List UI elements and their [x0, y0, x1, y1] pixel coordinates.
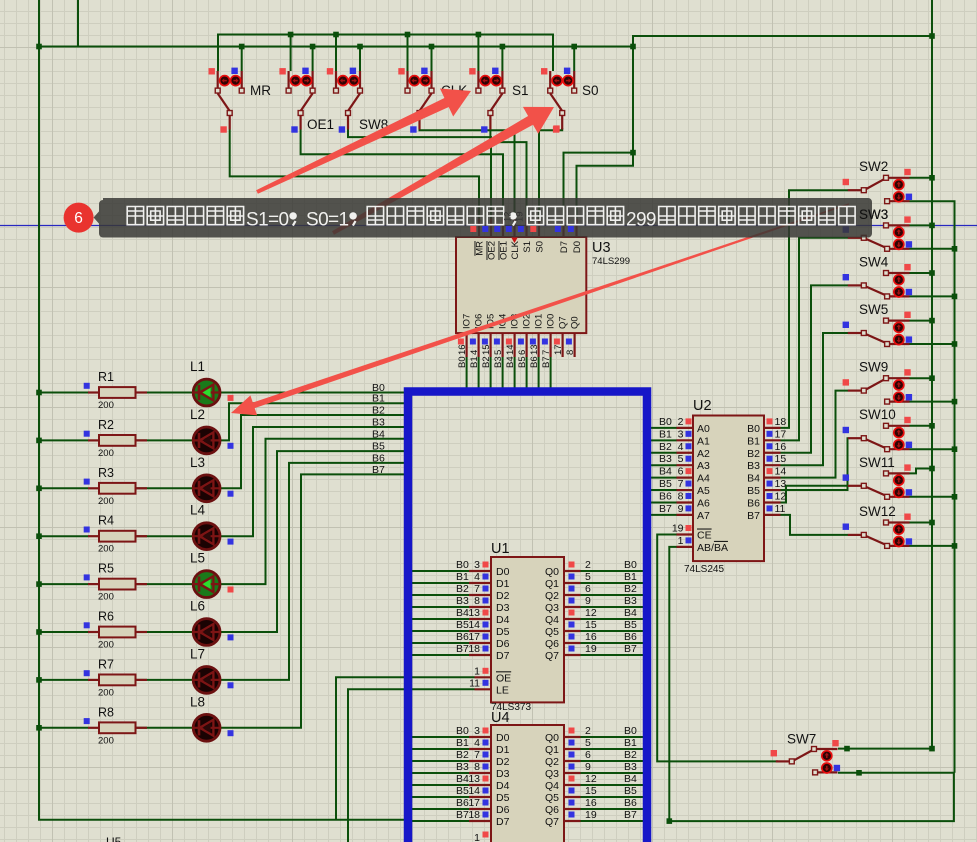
wire net B1 from L2 to module: [220, 403, 408, 440]
chip U3 74LS299: [456, 219, 630, 369]
svg-text:IO0: IO0: [545, 314, 556, 329]
wire R2 to L2: [135, 439, 193, 441]
wire U3 pin B5 to module: [526, 357, 528, 392]
svg-text:D0: D0: [496, 566, 510, 578]
svg-text:AB/BA: AB/BA: [697, 542, 728, 554]
svg-text:6: 6: [517, 350, 528, 355]
wire net B2 from L3 to module: [220, 415, 408, 488]
svg-text:B7: B7: [747, 510, 760, 522]
wire module to U2.A2: [651, 452, 677, 454]
svg-text:D0: D0: [572, 241, 583, 253]
svg-text:D4: D4: [496, 780, 510, 792]
switch SW5: [843, 302, 913, 346]
wire U1.Q1 to module: [581, 582, 646, 584]
svg-text:S0: S0: [535, 241, 546, 253]
svg-text:A6: A6: [697, 497, 710, 509]
svg-text:B2: B2: [659, 441, 672, 453]
wire switch top contact to rail y=225: [910, 224, 933, 226]
svg-text:S1: S1: [522, 241, 533, 253]
svg-text:15: 15: [585, 785, 597, 797]
U3 top pin numbers: [503, 211, 514, 222]
svg-text:15: 15: [481, 344, 492, 355]
wire U1.Q5 to module: [581, 630, 646, 632]
wire U3 pin B0 to module: [466, 357, 468, 392]
wire switch bottom contact to rail y=449: [910, 448, 955, 450]
svg-text:SW7: SW7: [787, 732, 816, 747]
svg-text:9: 9: [585, 595, 591, 607]
wire U4.Q2 to module: [581, 760, 646, 762]
switch CLK: [398, 68, 467, 133]
switch MR: [209, 68, 272, 133]
svg-text:299: 299: [626, 210, 656, 231]
svg-text:B7: B7: [624, 809, 637, 821]
svg-text:B4: B4: [372, 428, 385, 440]
svg-text:A1: A1: [697, 435, 710, 447]
wire net B4 from L5 to module: [220, 439, 408, 584]
svg-text:14: 14: [468, 785, 480, 797]
svg-text:D5: D5: [496, 626, 510, 638]
red annotation arrow to LEDs: [231, 203, 849, 415]
wire bus A stub x=290: [290, 35, 292, 72]
svg-text:B6: B6: [747, 497, 760, 509]
svg-text:18: 18: [468, 809, 480, 821]
svg-text:B6: B6: [624, 631, 637, 643]
wire switch top contact to rail y=273: [910, 272, 933, 274]
svg-text:SW12: SW12: [859, 504, 896, 519]
wire module to U2.A1: [651, 439, 677, 441]
svg-text:B2: B2: [456, 583, 469, 595]
svg-text:U1: U1: [491, 541, 510, 557]
svg-text:16: 16: [457, 344, 468, 355]
wire R6 to L6: [135, 631, 193, 633]
svg-text:6: 6: [585, 583, 591, 595]
wire module to U1.D1: [407, 582, 469, 584]
svg-text:6: 6: [585, 749, 591, 761]
wire U2.B6 to switch common: [781, 486, 849, 503]
svg-text:U3: U3: [592, 240, 611, 256]
wire module to U2.A5: [651, 489, 677, 491]
svg-text:D1: D1: [496, 578, 510, 590]
wire net B5 from L6 to module: [220, 451, 408, 632]
svg-text:D0: D0: [496, 732, 510, 744]
resistor R5: [84, 562, 147, 603]
svg-text:MR: MR: [475, 241, 486, 256]
wire R7 to L7: [135, 679, 193, 681]
svg-text:B7: B7: [624, 643, 637, 655]
svg-text:L2: L2: [190, 407, 205, 422]
wire rail to R7: [39, 679, 88, 681]
wire net B7 from L8 to module: [220, 474, 408, 727]
svg-text:L8: L8: [190, 694, 205, 709]
svg-text:B3: B3: [456, 761, 469, 773]
svg-text:8: 8: [474, 595, 480, 607]
svg-text:Q6: Q6: [545, 638, 559, 650]
svg-text:B5: B5: [372, 441, 385, 453]
svg-text:1: 1: [474, 832, 480, 842]
wire U4.Q6 to module: [581, 808, 646, 810]
svg-text:15: 15: [585, 619, 597, 631]
wire switch bottom contact to rail y=248: [910, 248, 955, 250]
svg-text:L7: L7: [190, 646, 205, 661]
svg-text:17: 17: [775, 428, 787, 440]
svg-text:B5: B5: [517, 356, 528, 368]
svg-text:B0: B0: [457, 356, 468, 368]
svg-text:200: 200: [98, 592, 114, 603]
svg-text:B3: B3: [624, 761, 637, 773]
U3 top pin state squares: [470, 125, 574, 232]
svg-text:Q7: Q7: [545, 650, 559, 662]
wire switch top contact to rail y=522: [910, 522, 933, 524]
red annotation arrow to S0: [332, 107, 554, 235]
wire module to U4.D5: [407, 796, 469, 798]
svg-text:B1: B1: [469, 356, 480, 368]
wire U4.Q3 to module: [581, 772, 646, 774]
svg-text:200: 200: [98, 496, 114, 507]
wire module to U2.A3: [651, 464, 677, 466]
svg-text:L6: L6: [190, 599, 205, 614]
wire D0 branch: [577, 153, 634, 219]
svg-text:B1: B1: [624, 571, 637, 583]
svg-text:B4: B4: [456, 607, 469, 619]
wire SW7 top contact to rail 1: [838, 748, 932, 750]
svg-text:6: 6: [678, 466, 684, 478]
wire module to U1.D2: [407, 594, 469, 596]
svg-text:R7: R7: [98, 657, 114, 671]
svg-text:D7: D7: [559, 241, 570, 253]
svg-text:L5: L5: [190, 551, 205, 566]
switch OE1: [279, 68, 334, 133]
svg-text:2: 2: [585, 559, 591, 571]
switch SW11: [843, 455, 913, 499]
subtitle tooltip box: [94, 198, 872, 238]
svg-text:13: 13: [468, 773, 480, 785]
switch SW12: [843, 504, 913, 548]
svg-text:B1: B1: [372, 393, 385, 405]
svg-text:17: 17: [468, 797, 480, 809]
wire U2.B1 to switch common: [781, 238, 849, 441]
LED L3: [190, 455, 234, 502]
svg-text:D3: D3: [496, 768, 510, 780]
svg-text:R4: R4: [98, 514, 114, 528]
svg-text:11: 11: [775, 503, 786, 515]
svg-text:12: 12: [503, 211, 514, 222]
wire net B0 from L1 to module: [220, 392, 408, 394]
LED L4: [190, 503, 234, 550]
wire SW8 switch to U3.OE2: [348, 130, 491, 220]
svg-text:CE: CE: [697, 530, 712, 542]
svg-text:B6: B6: [529, 356, 540, 368]
svg-text:B1: B1: [456, 571, 469, 583]
svg-text:B3: B3: [493, 356, 504, 368]
svg-text:SW4: SW4: [859, 254, 889, 269]
svg-text:19: 19: [515, 211, 526, 222]
wire U2.B3 to switch common: [781, 333, 849, 465]
wire U3 pin B6 to module: [538, 357, 540, 392]
LED L1: [190, 359, 234, 406]
svg-text:B3: B3: [659, 453, 672, 465]
svg-text:9: 9: [678, 503, 684, 515]
svg-text:200: 200: [98, 640, 114, 651]
svg-text:D7: D7: [496, 816, 510, 828]
svg-text:1: 1: [678, 535, 684, 547]
switch SW7: [771, 732, 841, 775]
svg-text:B1: B1: [624, 737, 637, 749]
svg-text:SW11: SW11: [859, 455, 895, 470]
chip U1 74LS373: [456, 557, 637, 702]
wire switch top contact to rail y=378: [910, 377, 933, 379]
svg-text:19: 19: [672, 523, 684, 535]
svg-text:B4: B4: [659, 466, 672, 478]
svg-text:5: 5: [585, 737, 591, 749]
LED L7: [190, 646, 234, 693]
svg-text:200: 200: [98, 544, 114, 555]
switch S1: [469, 68, 528, 133]
wire U2.B7 to switch common: [781, 515, 849, 535]
wire bus A stub x=478: [477, 35, 479, 72]
svg-text:S1=0: S1=0: [246, 210, 289, 231]
wire U1.LE: [348, 689, 475, 842]
svg-text:B1: B1: [747, 435, 760, 447]
svg-text:LE: LE: [496, 684, 509, 696]
svg-text:8: 8: [474, 761, 480, 773]
svg-text:U2: U2: [693, 398, 712, 414]
svg-text:SW5: SW5: [859, 302, 888, 317]
wire U1.OE: [336, 677, 475, 819]
chip U2 74LS245: [659, 398, 786, 575]
wire bus B stub x=312: [312, 47, 314, 72]
resistor R8: [84, 705, 147, 746]
chip U4 74LS373: [456, 725, 637, 842]
svg-text:B2: B2: [372, 405, 385, 417]
svg-text:U4: U4: [491, 710, 510, 726]
wire switch bottom contact to rail y=545: [910, 545, 955, 547]
svg-text:200: 200: [98, 448, 114, 459]
svg-text:L1: L1: [190, 359, 205, 374]
svg-text:B6: B6: [456, 631, 469, 643]
wire U3 pin B4 to module: [514, 357, 516, 392]
wire U1.Q7 to module: [581, 654, 646, 656]
svg-text:S0: S0: [582, 83, 599, 98]
svg-text:12: 12: [585, 773, 597, 785]
wire U2.B4 to switch common: [781, 391, 849, 478]
wire S1 switch to U3.S1: [490, 130, 526, 220]
svg-text:Q3: Q3: [545, 768, 559, 780]
wire rail to R2: [39, 439, 88, 441]
wire U3 pin B7 to module: [550, 357, 552, 392]
svg-text:200: 200: [98, 400, 114, 411]
wire switch top contact to rail y=177: [910, 177, 933, 179]
wire module to U1.D6: [407, 642, 469, 644]
LED L5: [190, 551, 234, 598]
wire SW11 top contact to rail: [910, 469, 933, 474]
svg-text:B2: B2: [481, 356, 492, 368]
svg-text:D6: D6: [496, 804, 510, 816]
wire switch bottom contact to rail y=401: [910, 401, 955, 403]
svg-text:A0: A0: [697, 423, 710, 435]
svg-text:B7: B7: [541, 356, 552, 368]
wire top feed stub: [77, 0, 79, 47]
svg-text:3: 3: [474, 725, 480, 737]
svg-text:14: 14: [468, 619, 480, 631]
svg-text:OE1: OE1: [307, 117, 334, 132]
svg-text:D1: D1: [496, 744, 510, 756]
svg-text:B0: B0: [456, 725, 469, 737]
svg-text:D4: D4: [496, 614, 510, 626]
svg-text:12: 12: [585, 607, 597, 619]
wire U1.Q0 to module: [581, 570, 646, 572]
wire module to U4.D2: [407, 760, 469, 762]
svg-text:U5: U5: [106, 835, 122, 842]
wire rail to R3: [39, 487, 88, 489]
svg-text:9: 9: [585, 761, 591, 773]
LED L2: [190, 407, 234, 454]
svg-text:D5: D5: [496, 792, 510, 804]
svg-text:SW3: SW3: [859, 207, 888, 222]
svg-text:4: 4: [678, 441, 684, 453]
wire U1.Q2 to module: [581, 594, 646, 596]
svg-text:13: 13: [468, 607, 480, 619]
wire bus B stub x=502: [501, 47, 503, 72]
switch SW4: [843, 254, 913, 298]
svg-text:B5: B5: [456, 785, 469, 797]
svg-text:B5: B5: [747, 485, 760, 497]
svg-text:A2: A2: [697, 448, 710, 460]
svg-text:Q2: Q2: [545, 756, 559, 768]
svg-text:7: 7: [474, 749, 480, 761]
wire U2.B0 to switch common: [781, 190, 849, 428]
svg-text:B6: B6: [372, 452, 385, 464]
wire switch bottom contact to rail y=496: [910, 496, 955, 498]
svg-text:19: 19: [585, 809, 597, 821]
wire module to U1.D7: [407, 654, 469, 656]
wire U4.Q1 to module: [581, 748, 646, 750]
svg-text:18: 18: [468, 643, 480, 655]
wire R3 to L3: [135, 487, 193, 489]
svg-text:74LS299: 74LS299: [592, 256, 630, 267]
svg-text:16: 16: [585, 797, 597, 809]
svg-text:B5: B5: [659, 478, 672, 490]
svg-text:L4: L4: [190, 503, 206, 518]
wire U4.Q0 to module: [581, 736, 646, 738]
svg-text:B6: B6: [456, 797, 469, 809]
wire module to U4.D0: [407, 736, 469, 738]
wire module to U1.D3: [407, 606, 469, 608]
wire bus A stub x=407: [407, 35, 409, 72]
switch S0: [541, 68, 599, 133]
svg-text:D6: D6: [496, 638, 510, 650]
svg-text:4: 4: [469, 350, 480, 355]
svg-text:13: 13: [775, 478, 787, 490]
svg-text:11: 11: [469, 677, 480, 689]
wire right rail 1: [931, 0, 933, 749]
svg-text:B0: B0: [624, 725, 637, 737]
svg-text:Q0: Q0: [569, 316, 580, 329]
svg-text:R1: R1: [98, 370, 114, 384]
wire D7 branch: [564, 153, 634, 219]
blue sub-module box: [408, 392, 647, 842]
svg-text:3: 3: [474, 559, 480, 571]
svg-text:6: 6: [74, 210, 83, 227]
svg-text:B0: B0: [456, 559, 469, 571]
svg-text:4: 4: [474, 737, 480, 749]
LED L8: [190, 694, 234, 741]
LED L6: [190, 599, 234, 646]
wire module to U4.D4: [407, 784, 469, 786]
svg-text:B4: B4: [624, 607, 637, 619]
wire S0 switch to U3.S0: [539, 128, 562, 219]
svg-text:B5: B5: [624, 785, 637, 797]
wire rail to R1: [39, 392, 88, 394]
wire module to U4.D3: [407, 772, 469, 774]
svg-text:74LS245: 74LS245: [684, 564, 724, 575]
svg-text:17: 17: [468, 631, 480, 643]
svg-text:D2: D2: [496, 756, 510, 768]
wire module to U2.A7: [651, 514, 677, 516]
wire U2.B2 to switch common: [781, 285, 849, 452]
svg-text:IO1: IO1: [533, 314, 544, 329]
svg-text:B5: B5: [456, 619, 469, 631]
wire module to U2.A6: [651, 501, 677, 503]
wire bus B to right rail riser: [633, 36, 932, 153]
wire rail to R6: [39, 631, 88, 633]
resistor R7: [84, 657, 147, 698]
wire top bus B (switch right contacts): [39, 46, 633, 48]
svg-text:13: 13: [529, 344, 540, 355]
wire R4 to L4: [135, 535, 193, 537]
svg-text:B1: B1: [659, 428, 672, 440]
wire bus B stub x=431: [431, 47, 433, 72]
svg-text:8: 8: [678, 490, 684, 502]
wire module to U2.A0: [651, 427, 677, 429]
svg-text:B4: B4: [624, 773, 637, 785]
svg-text:B3: B3: [624, 595, 637, 607]
blue origin line: [0, 225, 977, 227]
svg-text:B6: B6: [624, 797, 637, 809]
svg-text:OE2: OE2: [487, 241, 498, 260]
svg-text:B7: B7: [456, 643, 469, 655]
wire module to U4.D6: [407, 808, 469, 810]
wire U2.B5 to switch common: [781, 438, 849, 490]
svg-text:SW2: SW2: [859, 159, 888, 174]
svg-text:B0: B0: [624, 559, 637, 571]
svg-text:200: 200: [98, 735, 114, 746]
svg-text:B7: B7: [456, 809, 469, 821]
wire U3 pin B1 to module: [478, 357, 480, 392]
net labels B0-B7 left of module: [372, 382, 385, 476]
resistor R3: [84, 466, 147, 507]
svg-text:D2: D2: [496, 590, 510, 602]
svg-text:18: 18: [775, 416, 787, 428]
svg-text:4: 4: [474, 571, 480, 583]
svg-text:14: 14: [505, 344, 516, 355]
svg-text:B3: B3: [747, 460, 760, 472]
svg-text:7: 7: [678, 478, 684, 490]
switch SW9: [843, 360, 913, 404]
wire R1 to L1: [135, 392, 193, 394]
wire U2.CE to SW7 common: [657, 535, 778, 762]
wire switch top contact to rail y=320: [910, 320, 933, 322]
svg-text:Q2: Q2: [545, 590, 559, 602]
wire module to U1.D4: [407, 618, 469, 620]
switch SW10: [843, 407, 913, 451]
svg-text:B4: B4: [747, 473, 760, 485]
svg-text:SW9: SW9: [859, 360, 888, 375]
svg-text:MR: MR: [250, 83, 271, 98]
svg-text:Q7: Q7: [557, 316, 568, 329]
wire module to U2.A4: [651, 477, 677, 479]
svg-text:B3: B3: [456, 595, 469, 607]
annotation circle 6: [64, 203, 94, 233]
